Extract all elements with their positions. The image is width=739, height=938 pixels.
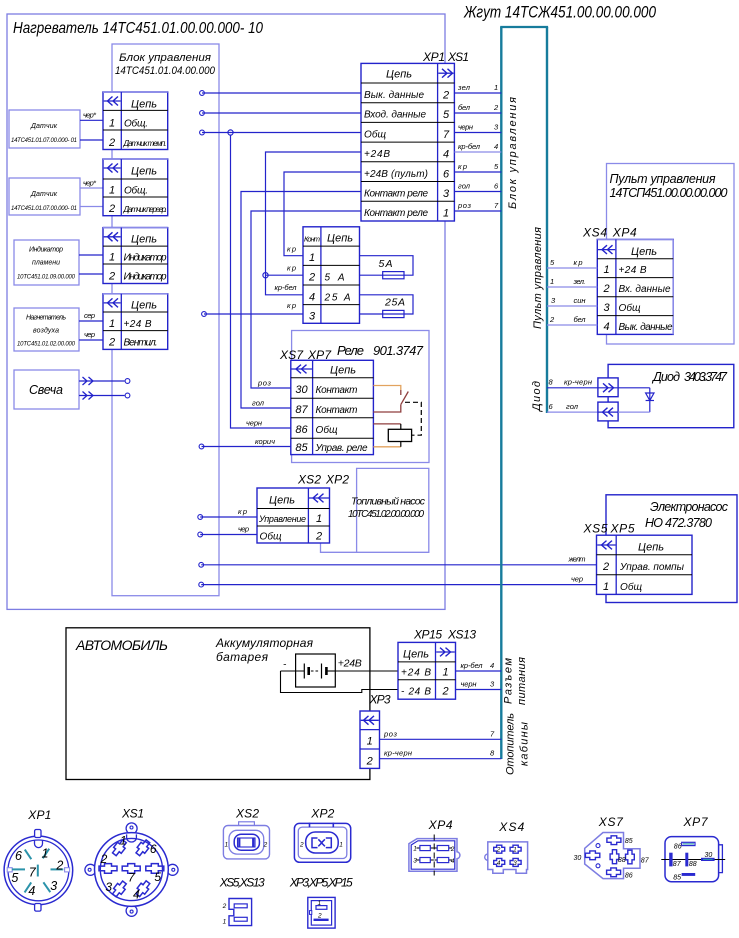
svg-text:25 А: 25 А <box>324 292 351 303</box>
svg-text:6: 6 <box>150 842 157 856</box>
svg-text:кр: кр <box>287 264 296 273</box>
svg-text:3: 3 <box>443 188 450 200</box>
svg-text:XS4: XS4 <box>582 226 607 240</box>
svg-text:чер: чер <box>84 330 95 339</box>
vehicle box АВТОМОБИЛЬ <box>66 628 370 780</box>
label XS7 XP7 <box>279 348 332 362</box>
connector table T4 (air blower) <box>103 294 168 350</box>
svg-text:кр: кр <box>574 258 583 267</box>
svg-text:Вентил.: Вентил. <box>124 338 158 349</box>
svg-text:4: 4 <box>603 321 609 333</box>
pictogram XP2 <box>294 807 350 863</box>
wire диод гол 6 <box>547 402 598 412</box>
svg-text:XS4: XS4 <box>498 820 524 834</box>
svg-text:пламени: пламени <box>32 260 60 267</box>
svg-text:XS5: XS5 <box>583 522 608 536</box>
svg-text:2: 2 <box>263 842 268 849</box>
wire гол 6 <box>454 182 501 192</box>
wire роз 7 (XP3 to trunk) <box>380 730 502 740</box>
harness title Жгут 14ТСЖ451.00.00.00.000 <box>463 3 656 22</box>
svg-text:+24 В: +24 В <box>124 319 152 330</box>
harness trunk top edge <box>500 26 548 28</box>
svg-text:1: 1 <box>603 581 609 593</box>
svg-text:черн: черн <box>461 680 477 689</box>
svg-text:Управ. реле: Управ. реле <box>315 443 368 454</box>
rotated label Отопитель кабины <box>505 713 531 775</box>
svg-text:Нагнетатель: Нагнетатель <box>26 315 66 322</box>
svg-text:901.3747: 901.3747 <box>373 343 424 358</box>
wire Датчик1 pin2 <box>80 139 103 141</box>
svg-text:1: 1 <box>413 845 417 852</box>
wire labels fuse inputs <box>275 245 298 311</box>
svg-text:Вык. данные: Вык. данные <box>364 90 424 101</box>
svg-text:+24 В: +24 В <box>619 265 647 276</box>
svg-text:Индикатор: Индикатор <box>29 246 63 254</box>
svg-text:кр: кр <box>287 245 296 254</box>
svg-text:Контакт реле: Контакт реле <box>364 208 428 219</box>
svg-text:25А: 25А <box>384 297 405 309</box>
wire XP1 row1 Вык.данные <box>200 91 361 96</box>
battery <box>281 654 362 687</box>
pictogram XS1 (round connector face) <box>85 807 178 917</box>
svg-text:1: 1 <box>223 919 227 926</box>
label XP3 <box>369 693 391 707</box>
svg-text:10ТС451.01.09.00.000: 10ТС451.01.09.00.000 <box>17 275 76 281</box>
svg-text:1: 1 <box>109 118 115 130</box>
svg-text:14ТС451.01.07.00.000- 01: 14ТС451.01.07.00.000- 01 <box>11 206 77 212</box>
wire Нагнетатель pin1 сер <box>79 311 103 321</box>
svg-text:Блок управления: Блок управления <box>507 97 519 209</box>
svg-text:3: 3 <box>413 857 417 864</box>
svg-text:Диод: Диод <box>531 381 543 413</box>
svg-text:Датчик: Датчик <box>30 123 58 130</box>
svg-text:Разъем: Разъем <box>503 658 515 704</box>
svg-text:Реле: Реле <box>337 343 364 358</box>
svg-text:+24В (пульт): +24В (пульт) <box>364 169 428 180</box>
svg-text:XS5,XS13: XS5,XS13 <box>219 876 265 890</box>
svg-text:Свеча: Свеча <box>29 383 63 397</box>
rotated label Разъем питания <box>503 657 529 705</box>
svg-text:Цепь: Цепь <box>327 233 353 245</box>
svg-text:4: 4 <box>28 884 35 898</box>
svg-text:кр: кр <box>238 507 247 516</box>
svg-text:3: 3 <box>309 311 316 323</box>
svg-text:XS7: XS7 <box>598 815 624 829</box>
svg-text:черн: черн <box>246 419 262 428</box>
svg-text:роз: роз <box>457 201 472 210</box>
relay internal contact 30 wire <box>373 386 400 396</box>
svg-text:87: 87 <box>295 404 308 416</box>
svg-text:Вык. данные: Вык. данные <box>619 322 673 333</box>
svg-text:88: 88 <box>618 857 626 864</box>
svg-text:30: 30 <box>705 852 713 859</box>
svg-text:Цепь: Цепь <box>131 300 157 312</box>
svg-text:Контакт реле: Контакт реле <box>364 189 428 200</box>
svg-text:87: 87 <box>641 858 650 865</box>
svg-text:воздуха: воздуха <box>33 327 59 335</box>
pictogram XS7 <box>574 815 650 879</box>
connector table XP15/XS13 <box>398 642 456 699</box>
svg-text:питания: питания <box>516 657 528 705</box>
svg-text:XS1: XS1 <box>121 807 144 821</box>
svg-text:Блок управления: Блок управления <box>119 52 211 64</box>
svg-text:85: 85 <box>625 838 633 845</box>
label XP1 XS1 <box>422 50 469 64</box>
svg-text:2: 2 <box>450 846 455 853</box>
air blower box Нагнетатель воздуха 10ТС451.01.02.00.000 <box>14 308 79 351</box>
svg-text:Общ: Общ <box>316 424 338 436</box>
svg-text:2: 2 <box>222 903 227 910</box>
label XP15 XS13 <box>413 628 476 642</box>
svg-text:Датчик перегр.: Датчик перегр. <box>123 205 168 214</box>
svg-text:- 24 В: - 24 В <box>401 687 431 698</box>
label Аккумуляторная батарея <box>215 636 314 664</box>
svg-text:Цепь: Цепь <box>269 495 295 507</box>
svg-text:1: 1 <box>494 83 498 92</box>
pictogram XP4 <box>409 818 460 876</box>
wire зел 1 <box>454 83 501 93</box>
svg-text:XP1: XP1 <box>27 808 51 822</box>
svg-text:Контакт: Контакт <box>316 405 358 416</box>
connector table T1 (sensor temp) <box>103 92 168 150</box>
wire Индикатор pin1 <box>79 254 103 256</box>
control panel box Пульт управления 14ТСП451.00.00.00.000 <box>607 164 735 345</box>
wire Свеча 2 with chevrons <box>79 392 130 400</box>
flame indicator box Индикатор пламени 10ТС451.01.09.00.000 <box>14 240 79 285</box>
relay dashed actuator link <box>405 402 421 435</box>
connector table XS5/XP5 <box>597 535 693 594</box>
wire Датчик1 pin1 <box>80 111 103 121</box>
connector table T3 (flame indicator) <box>103 228 168 284</box>
svg-text:Электронасос: Электронасос <box>650 500 729 514</box>
svg-text:Общ: Общ <box>260 531 282 543</box>
svg-text:4: 4 <box>451 858 455 865</box>
svg-text:1: 1 <box>109 252 115 264</box>
pictogram XP3,XP5,XP15 <box>289 876 353 929</box>
svg-text:30: 30 <box>574 855 582 862</box>
svg-text:бел: бел <box>574 315 587 324</box>
svg-text:XP4: XP4 <box>428 818 453 832</box>
wire желт (to electric pump) <box>199 555 597 568</box>
svg-text:ХР3: ХР3 <box>369 693 391 707</box>
svg-text:XP2: XP2 <box>325 473 349 487</box>
svg-text:2: 2 <box>493 103 499 112</box>
wire fuse pin3 from node <box>202 312 303 317</box>
wire riser +24В (XP1 row4 to fuses) <box>263 152 361 295</box>
svg-text:2: 2 <box>366 756 373 768</box>
wire Датчик2 pin1 <box>80 179 103 189</box>
wire кр-бел 4 <box>454 142 501 152</box>
svg-text:10ТС451.02.00.00.000: 10ТС451.02.00.00.000 <box>348 509 424 520</box>
relay box Реле 901.3747 <box>292 331 429 463</box>
title Нагреватель 14ТС451.01.00.00.000-10 <box>13 20 263 37</box>
svg-text:7: 7 <box>443 129 450 141</box>
relay internal 85 wire <box>373 442 400 447</box>
svg-text:2: 2 <box>308 272 315 284</box>
svg-text:2: 2 <box>549 315 555 324</box>
svg-text:3: 3 <box>513 860 517 867</box>
svg-text:роз: роз <box>383 730 398 739</box>
svg-text:3: 3 <box>603 302 610 314</box>
wire бел 2 <box>454 103 501 113</box>
wire riser роз (relay 30 to XP1 row7) <box>251 211 361 388</box>
svg-text:Жгут 14ТСЖ451.00.00.00.000: Жгут 14ТСЖ451.00.00.00.000 <box>463 3 656 22</box>
svg-text:86: 86 <box>295 424 308 436</box>
svg-text:2: 2 <box>108 337 115 349</box>
svg-text:желт: желт <box>568 555 586 564</box>
pictogram XS5,XS13 <box>219 876 265 926</box>
fuse 5A circuit <box>360 256 414 279</box>
svg-text:1: 1 <box>367 736 373 748</box>
connector table XS4/XP4 <box>597 239 673 334</box>
wire пульт син 3 <box>547 296 597 306</box>
svg-text:4: 4 <box>490 661 494 670</box>
svg-text:86: 86 <box>674 843 682 850</box>
svg-text:Топливный насос: Топливный насос <box>351 496 426 508</box>
svg-text:XP4: XP4 <box>612 226 637 240</box>
heater unit outline box Нагреватель <box>7 14 445 609</box>
svg-text:3403.3747: 3403.3747 <box>684 370 728 384</box>
svg-text:1: 1 <box>109 185 115 197</box>
wire пульт бел 2 <box>547 315 597 325</box>
svg-text:АВТОМОБИЛЬ: АВТОМОБИЛЬ <box>75 637 168 653</box>
svg-text:XS1: XS1 <box>447 50 469 64</box>
diode connector square 2 (<<) <box>598 402 618 421</box>
connector XP3 <box>360 711 380 768</box>
svg-text:4: 4 <box>443 149 449 161</box>
wire черн 3 <box>454 123 501 133</box>
svg-text:Конт: Конт <box>304 235 320 244</box>
svg-text:Управ. помпы: Управ. помпы <box>619 562 685 573</box>
svg-text:Аккумуляторная: Аккумуляторная <box>215 636 314 650</box>
svg-text:5: 5 <box>443 109 450 121</box>
label XS2 XP2 <box>297 473 349 487</box>
wire черн 3 (XP15 to trunk) <box>456 680 502 690</box>
svg-text:14ТС451.01.04.00.000: 14ТС451.01.04.00.000 <box>115 65 216 77</box>
svg-text:XS2: XS2 <box>235 807 259 821</box>
svg-text:XP3,ХР5,ХР15: XP3,ХР5,ХР15 <box>289 876 353 890</box>
fuel pump box Топливный насос 10ТС451.02.00.00.000 <box>321 468 429 552</box>
svg-text:Цепь: Цепь <box>330 365 356 377</box>
svg-text:Цепь: Цепь <box>131 234 157 246</box>
svg-text:2: 2 <box>299 842 304 849</box>
svg-text:корич: корич <box>255 437 275 446</box>
svg-text:85: 85 <box>295 442 308 454</box>
wire чер (to electric pump) <box>199 575 597 587</box>
wire Нагнетатель pin2 чер <box>79 330 103 340</box>
relay internal 86 wire <box>373 424 400 429</box>
rotated label Блок управления <box>507 97 519 209</box>
harness trunk right line <box>546 27 548 413</box>
svg-text:Контакт: Контакт <box>316 385 358 396</box>
svg-text:Датчик темп.: Датчик темп. <box>123 139 167 148</box>
svg-text:87: 87 <box>673 861 682 868</box>
svg-text:+24В: +24В <box>338 658 362 670</box>
pictogram XP1 (round connector face) <box>4 808 73 911</box>
harness trunk left line <box>500 27 502 759</box>
svg-text:син: син <box>574 296 586 305</box>
svg-text:2: 2 <box>317 913 322 920</box>
svg-text:кр-бел: кр-бел <box>275 283 298 292</box>
svg-text:4: 4 <box>133 887 140 901</box>
wire пульт зел 1 <box>547 277 597 287</box>
svg-text:гол: гол <box>458 182 471 191</box>
pictogram XS4 <box>485 820 528 873</box>
sensor box Датчик 14ТС451.01.07.00.000-01 (temperature) <box>9 110 80 148</box>
svg-text:кр-черн: кр-черн <box>564 378 592 387</box>
svg-text:7: 7 <box>29 866 37 880</box>
svg-text:Пульт управления: Пульт управления <box>532 227 544 329</box>
svg-text:1: 1 <box>513 847 517 854</box>
svg-text:5 А: 5 А <box>325 273 345 284</box>
svg-text:Цепь: Цепь <box>386 69 412 81</box>
svg-text:88: 88 <box>689 861 697 868</box>
wire XP1 row2 Вход.данные <box>200 111 361 116</box>
connector table XS7/XP7 <box>291 360 374 454</box>
svg-text:кр-бел: кр-бел <box>458 142 481 151</box>
svg-text:2: 2 <box>55 859 63 873</box>
relay internal contact 87 wire <box>373 405 400 412</box>
wire labels relay inputs <box>246 379 275 447</box>
svg-text:2: 2 <box>441 686 448 698</box>
electric pump box Электронасос НО 472.3780 <box>606 495 737 603</box>
svg-text:Управление: Управление <box>258 514 306 524</box>
svg-text:6: 6 <box>443 168 450 180</box>
svg-text:1: 1 <box>120 834 127 848</box>
svg-text:3: 3 <box>50 879 57 893</box>
wire роз 7 <box>454 201 501 211</box>
svg-text:Цепь: Цепь <box>638 542 664 554</box>
relay switch blade <box>401 392 409 405</box>
svg-text:кр: кр <box>287 301 296 310</box>
svg-text:5А: 5А <box>379 258 393 270</box>
svg-text:1: 1 <box>339 842 343 849</box>
svg-text:XP7: XP7 <box>683 815 709 829</box>
svg-text:2: 2 <box>100 852 108 866</box>
svg-text:Датчик: Датчик <box>30 191 58 198</box>
label XS5 XP5 <box>583 522 635 536</box>
label XS4 XP4 <box>582 226 637 240</box>
sensor box Датчик 14ТС451.01.07.00.000-01 (overheat) <box>9 178 80 215</box>
svg-text:Отопитель: Отопитель <box>505 713 517 775</box>
wire кр-бел 4 (XP15 to trunk) <box>456 661 502 671</box>
svg-text:1: 1 <box>316 513 322 525</box>
svg-text:Общ: Общ <box>619 302 641 314</box>
svg-text:14ТС451.01.07.00.000- 01: 14ТС451.01.07.00.000- 01 <box>11 138 77 144</box>
svg-text:30: 30 <box>295 384 308 396</box>
svg-text:4: 4 <box>309 291 315 303</box>
wire riser черн (relay 86 to Общ junction) <box>231 135 291 428</box>
wire Датчик2 pin2 <box>80 206 103 208</box>
svg-text:14ТСП451.00.00.00.000: 14ТСП451.00.00.00.000 <box>610 186 728 200</box>
glow plug box Свеча <box>14 370 79 409</box>
connector table XS2/XP2 <box>257 488 330 543</box>
svg-text:Пульт управления: Пульт управления <box>610 172 716 186</box>
wire диод кр-черн 8 <box>547 378 598 388</box>
svg-text:Индикатор: Индикатор <box>124 253 167 264</box>
diode connector square 1 (>>) <box>598 378 618 397</box>
svg-text:+24 В: +24 В <box>401 668 431 679</box>
connector table T2 (sensor overheat) <box>103 159 168 216</box>
svg-text:1: 1 <box>443 208 449 220</box>
relay coil <box>388 429 411 441</box>
svg-text:2: 2 <box>602 561 609 573</box>
wire riser +24В пульт (XP1 row5 to fuse pin1) <box>284 172 361 256</box>
wire кр-черн 8 (XP3 to trunk) <box>380 749 502 759</box>
wire Свеча 1 with chevrons <box>79 377 130 385</box>
svg-text:чер*: чер* <box>83 111 97 120</box>
svg-text:Общ.: Общ. <box>124 118 148 130</box>
wire XS2 кр <box>198 507 257 519</box>
svg-text:Общ.: Общ. <box>124 185 148 197</box>
rotated label Пульт управления <box>532 227 544 329</box>
svg-text:XP1: XP1 <box>422 50 445 64</box>
fuse 25A circuit <box>360 295 414 318</box>
svg-text:1: 1 <box>603 264 609 276</box>
svg-text:кр-бел: кр-бел <box>461 661 484 670</box>
svg-text:гол: гол <box>566 402 579 411</box>
wire корич (relay 85) <box>199 444 291 449</box>
svg-text:86: 86 <box>625 872 633 879</box>
svg-text:3: 3 <box>105 880 112 894</box>
svg-text:сер: сер <box>84 311 95 320</box>
diode box Диод 3403.3747 <box>608 364 734 427</box>
svg-text:1: 1 <box>109 318 115 330</box>
svg-text:2: 2 <box>602 283 609 295</box>
svg-text:чер: чер <box>571 575 583 584</box>
svg-text:бел: бел <box>458 103 471 112</box>
svg-text:Нагреватель 14ТС451.01.00.00.: Нагреватель 14ТС451.01.00.00.000- 10 <box>13 20 263 37</box>
svg-text:4: 4 <box>494 142 498 151</box>
svg-text:Цепь: Цепь <box>631 246 657 258</box>
svg-text:кабины: кабины <box>519 722 531 766</box>
wire пульт кр 5 <box>547 258 597 268</box>
connector table XP1/XS1 <box>361 63 454 221</box>
svg-text:1: 1 <box>225 842 229 849</box>
svg-text:6: 6 <box>15 849 22 863</box>
svg-text:Цепь: Цепь <box>403 649 429 661</box>
svg-text:Общ: Общ <box>364 128 386 140</box>
svg-text:Цепь: Цепь <box>131 99 157 111</box>
svg-text:Общ: Общ <box>620 581 642 593</box>
svg-text:XP15: XP15 <box>413 628 442 642</box>
svg-text:роз: роз <box>257 379 272 388</box>
svg-text:кр: кр <box>458 162 467 171</box>
wire battery plus to XP15 <box>335 670 398 672</box>
svg-text:85: 85 <box>673 874 681 881</box>
svg-text:зел.: зел. <box>573 277 586 286</box>
svg-text:2: 2 <box>496 847 501 854</box>
svg-text:1: 1 <box>318 900 322 907</box>
svg-text:Диод: Диод <box>651 370 680 384</box>
pictogram XS2 <box>223 807 269 859</box>
wire Индикатор pin2 <box>79 273 103 275</box>
svg-text:2: 2 <box>108 137 115 149</box>
svg-text:10ТС451.01.02.00.000: 10ТС451.01.02.00.000 <box>17 342 76 348</box>
svg-text:Вх. данные: Вх. данные <box>619 284 671 295</box>
wire XP1 row3 Общ with junction <box>200 130 361 135</box>
svg-text:кр-черн: кр-черн <box>384 749 412 758</box>
svg-text:зел: зел <box>457 83 471 92</box>
svg-text:5: 5 <box>11 871 18 885</box>
pictogram XP7 <box>661 815 725 882</box>
rotated label Диод <box>531 381 543 413</box>
svg-text:2: 2 <box>108 203 115 215</box>
control unit box Блок управления 14ТС451.01.04.00.000 <box>112 44 219 596</box>
svg-text:2: 2 <box>442 90 449 102</box>
svg-text:чер*: чер* <box>83 179 97 188</box>
svg-text:+24В: +24В <box>364 149 390 160</box>
